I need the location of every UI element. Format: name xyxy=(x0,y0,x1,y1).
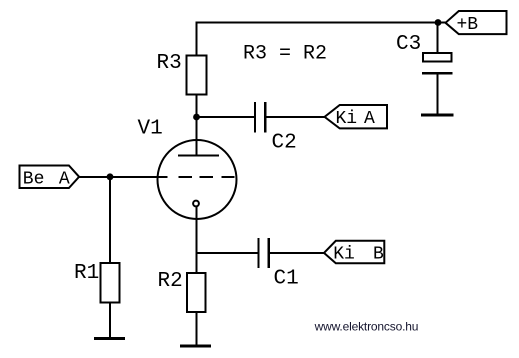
svg-text:Ki: Ki xyxy=(333,244,355,264)
svg-text:Be: Be xyxy=(23,169,45,189)
svg-text:R2: R2 xyxy=(158,270,183,293)
svg-text:A: A xyxy=(59,169,70,189)
svg-text:R3: R3 xyxy=(157,52,182,75)
svg-text:C2: C2 xyxy=(272,131,297,154)
svg-text:V1: V1 xyxy=(138,117,163,140)
svg-text:A: A xyxy=(364,109,375,129)
svg-text:C3: C3 xyxy=(396,33,421,56)
svg-text:R3 = R2: R3 = R2 xyxy=(243,42,327,65)
svg-text:R1: R1 xyxy=(74,262,99,285)
svg-text:www.elektroncso.hu: www.elektroncso.hu xyxy=(314,319,419,333)
svg-text:C1: C1 xyxy=(274,268,299,291)
svg-text:+B: +B xyxy=(457,15,479,35)
svg-text:B: B xyxy=(373,244,384,264)
svg-text:Ki: Ki xyxy=(336,109,358,129)
